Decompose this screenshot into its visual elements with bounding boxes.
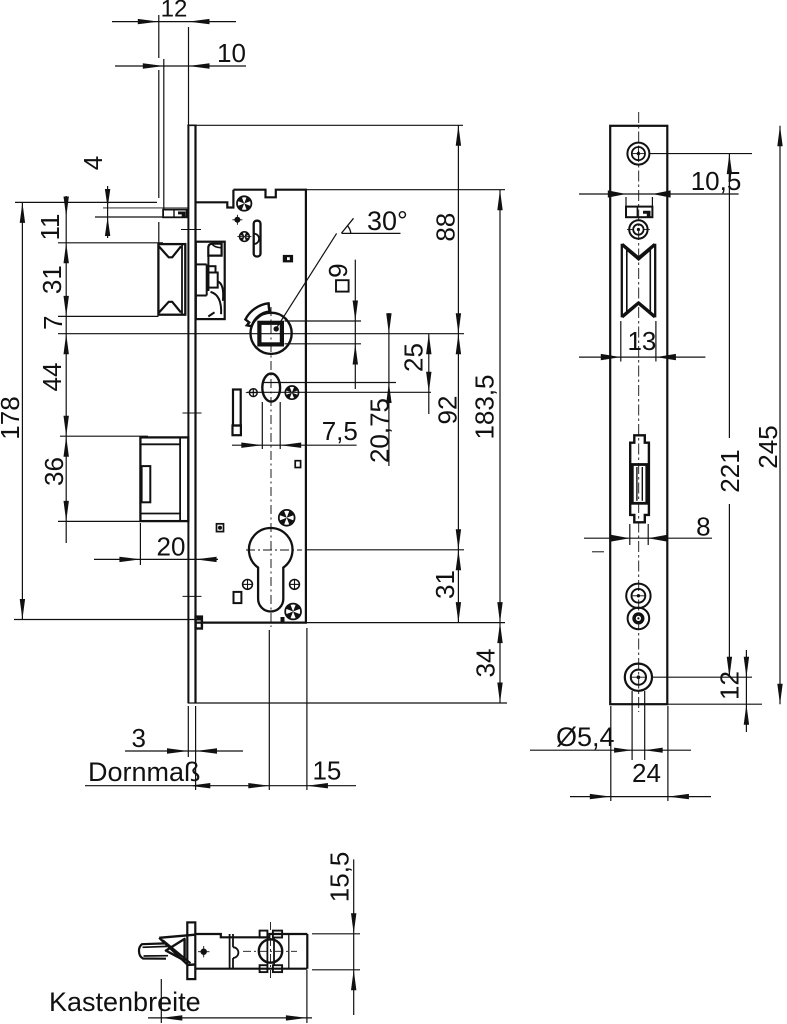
cylinder phillips left <box>242 579 253 590</box>
ref line plate bottom extended <box>667 703 762 705</box>
follower bottom tabs <box>260 965 268 972</box>
case body top edge with recess <box>195 934 307 937</box>
dimension 12 (top) <box>112 0 236 24</box>
svg-text:178: 178 <box>0 396 25 439</box>
dimension 92 <box>433 334 463 550</box>
screw hole ref line to 221 <box>650 153 752 155</box>
latch dot <box>198 946 209 957</box>
latch body behind faceplate <box>196 242 225 319</box>
latch body step vertical <box>206 264 208 295</box>
cylinder screw bottom <box>285 604 301 620</box>
ref line y=382.5 <box>262 382 396 384</box>
dimension 13 <box>579 321 705 362</box>
svg-text:12: 12 <box>715 671 745 700</box>
deadbolt box inner top <box>140 443 180 445</box>
svg-text:3: 3 <box>131 723 145 753</box>
dimension 3 <box>125 723 243 754</box>
svg-text:34: 34 <box>470 649 500 678</box>
ref line y=217 <box>95 216 163 218</box>
faceplate left edge <box>187 125 189 704</box>
svg-text:221: 221 <box>715 449 745 492</box>
ref line y=619.5 <box>14 619 202 621</box>
svg-text:245: 245 <box>753 425 783 468</box>
follower dot <box>274 326 279 331</box>
ref line y=316.4 <box>58 315 159 317</box>
latch body step line <box>196 263 207 265</box>
svg-text:7,5: 7,5 <box>322 416 358 446</box>
dimension 88 <box>430 125 461 333</box>
dimension 7,5 <box>232 416 358 448</box>
svg-text:20,75: 20,75 <box>365 398 395 463</box>
svg-text:183,5: 183,5 <box>470 374 500 439</box>
svg-text:31: 31 <box>37 265 67 294</box>
ref line y=343.8 (square bottom) <box>285 343 362 345</box>
deadbolt box inner vertical <box>179 437 181 521</box>
screw X big top <box>237 196 251 210</box>
dimension 221 <box>715 154 745 678</box>
dimension 245 <box>753 126 783 704</box>
tiny pin left <box>217 524 224 532</box>
B-clip square <box>233 426 241 436</box>
ref line oval left x=262.3 <box>261 402 263 449</box>
faceplate right edge <box>194 125 196 704</box>
cylinder phillips right <box>289 579 300 590</box>
tick on plate edge <box>592 551 604 553</box>
dimension 183,5 <box>470 190 503 623</box>
ref line y=392.3 (screw center) <box>247 391 431 393</box>
cylinder hole PZ profile <box>249 528 293 611</box>
deadbolt box inner bottom <box>140 513 180 515</box>
svg-text:10: 10 <box>217 38 246 68</box>
dimension diameter 5,4 <box>530 691 691 760</box>
mounting oval <box>262 374 280 402</box>
deadbolt slot cutout <box>630 435 649 522</box>
svg-text:8: 8 <box>696 512 710 542</box>
right view dimensions <box>530 126 783 801</box>
follower square sides <box>266 938 268 966</box>
dimension 31 right <box>430 550 461 623</box>
latch axis tick <box>181 229 201 231</box>
case body bottom edge <box>195 968 307 970</box>
ref line x=195.6 below plate <box>195 706 197 790</box>
ref line y=202.4 <box>15 201 157 203</box>
aux latch top edge (thin) <box>103 207 188 209</box>
dimension 25 <box>399 334 432 414</box>
deadbolt box <box>140 437 188 521</box>
latch roller bottom V <box>159 302 181 313</box>
follower circle <box>251 313 292 354</box>
top countersunk screw hole <box>627 143 649 165</box>
ref line oval right x=280.2 <box>279 402 281 449</box>
svg-text:7: 7 <box>38 316 68 330</box>
svg-text:24: 24 <box>632 758 661 788</box>
screw X right of oval <box>285 386 298 399</box>
divider lines with bump <box>230 934 239 969</box>
ref line y=242.8 <box>58 242 163 244</box>
small rect left of cylinder <box>234 592 242 603</box>
dimension 31 arrows <box>37 265 69 316</box>
ref line x=140.4 below box <box>139 523 141 565</box>
faceplate bar <box>187 922 195 979</box>
svg-text:92: 92 <box>433 396 463 425</box>
dimension 15,5 <box>312 852 360 1015</box>
screw hole 2 <box>627 220 650 238</box>
svg-text:44: 44 <box>37 363 67 392</box>
ref line x=306.9 <box>306 628 308 790</box>
screw hole pair upper <box>626 584 650 608</box>
dimension 8 <box>584 512 712 546</box>
ref line x=188.3 below plate <box>187 706 189 757</box>
bottom view dimensions <box>49 852 360 1023</box>
svg-text:31: 31 <box>430 570 460 599</box>
follower square <box>259 323 282 345</box>
small black square w/ dot <box>283 255 293 263</box>
bottom view centerlines <box>270 922 272 981</box>
svg-text:30°: 30° <box>367 206 408 236</box>
dimension 9 <box>323 260 358 389</box>
aux latch black mark <box>178 212 186 217</box>
follower center ref line y=333.7 <box>58 333 464 335</box>
Dornmass dimension line <box>85 756 356 789</box>
bottom screw hole <box>625 664 652 691</box>
follower beak arm <box>245 303 269 326</box>
case bottom ref line y=622.6 <box>307 622 505 624</box>
screw hole pair lower <box>628 608 650 630</box>
screw X small <box>237 232 251 242</box>
dimension 11 arrows <box>35 197 69 264</box>
spring slot <box>254 221 261 257</box>
inner vertical right <box>288 934 290 969</box>
latch cam diagonal <box>208 312 214 316</box>
Kastenbreite dimension <box>49 970 312 1023</box>
follower/cylinder centerline vertical <box>270 307 272 627</box>
plate bottom / 34 ref line y=703 <box>188 702 507 704</box>
lock case outline <box>196 190 306 623</box>
left dim chain line x=66.2 <box>65 196 67 543</box>
dimension 10 <box>115 38 246 69</box>
latch roller top V <box>159 246 181 257</box>
ref line y=521.4 <box>58 520 187 522</box>
bottom clip at plate/case joint <box>196 617 202 629</box>
extension line x=188.5 above plate <box>188 27 190 125</box>
plate top ref line y=125.5 <box>197 124 464 126</box>
latch cam mid rect <box>208 273 217 288</box>
latch spring top inner curve <box>212 244 222 248</box>
case body right edge <box>306 934 308 969</box>
deadbolt tab <box>142 466 151 502</box>
faceplate break tick upper <box>183 412 202 414</box>
follower circle <box>259 939 282 962</box>
svg-text:15: 15 <box>312 756 341 786</box>
svg-text:36: 36 <box>39 457 69 486</box>
ref line x=269.3 (axis) <box>268 630 270 790</box>
30 deg leader <box>277 206 408 328</box>
latch cam arc lower <box>211 292 222 314</box>
extension line x=158.8 (roller left) <box>158 15 160 244</box>
svg-text:Ø5,4: Ø5,4 <box>556 722 615 752</box>
svg-text:12: 12 <box>161 0 188 23</box>
latch roller rect <box>158 244 185 315</box>
faceplate break tick lower <box>183 595 202 597</box>
follower beak end cut <box>268 303 271 311</box>
svg-text:88: 88 <box>430 213 460 242</box>
phillips screw left of oval <box>246 389 257 397</box>
svg-text:4: 4 <box>78 156 108 170</box>
dimension 10,5 <box>579 166 741 207</box>
svg-text:11: 11 <box>35 214 65 241</box>
aux latch divider <box>173 210 175 218</box>
latch body lower step line <box>196 295 207 297</box>
dimension 178 <box>0 202 25 619</box>
ref line y=436.2 <box>60 435 148 437</box>
faceplate top cap <box>187 124 196 126</box>
svg-text:9: 9 <box>323 263 353 277</box>
svg-text:20: 20 <box>157 532 186 562</box>
svg-text:15,5: 15,5 <box>324 852 354 903</box>
svg-text:Dornmaß: Dornmaß <box>88 757 201 787</box>
extension line x=163.8 (aux latch tip) <box>163 59 165 209</box>
dimension 34 <box>470 623 502 703</box>
latch cam small rect <box>208 266 215 272</box>
svg-text:13: 13 <box>627 326 656 356</box>
dimension 12 right view <box>715 650 750 732</box>
dimension 44 arrows <box>37 363 69 437</box>
aux latch cutout <box>626 207 652 218</box>
latch finger <box>139 943 168 958</box>
follower top tabs <box>260 931 268 938</box>
dimension 7 arrows <box>38 316 69 355</box>
latch roller inner right line <box>181 244 183 315</box>
dimension 4 <box>78 156 111 238</box>
tiny mark near bottom screw <box>281 617 285 622</box>
svg-text:Kastenbreite: Kastenbreite <box>49 987 201 1017</box>
cylinder center ref line y=549.8 <box>307 549 464 551</box>
svg-text:25: 25 <box>399 343 429 372</box>
faceplate centerline <box>638 112 640 712</box>
dimension 20,75 <box>365 313 395 466</box>
latch head wedge <box>159 935 195 965</box>
latch spring top piece <box>208 244 221 256</box>
B-clip strip <box>233 390 241 426</box>
tiny square near case edge <box>295 461 300 468</box>
dimension 24 <box>570 706 711 801</box>
case top ref line y=189.7 <box>307 189 505 191</box>
latch cam arc upper <box>218 282 224 301</box>
svg-text:10,5: 10,5 <box>691 166 742 196</box>
latch body inner vertical <box>207 256 209 292</box>
bottom screw ref line <box>653 676 752 678</box>
screw dot small <box>232 215 242 225</box>
roller cutout <box>622 244 655 318</box>
cylinder screw top <box>279 510 295 526</box>
ref line y=321 (square top) <box>285 320 362 322</box>
dimension 20 <box>94 532 218 563</box>
dimension 36 arrows <box>39 436 69 521</box>
aux latch body <box>163 210 187 218</box>
cylinder centerline horizontal <box>246 549 302 551</box>
faceplate outline <box>610 126 667 704</box>
